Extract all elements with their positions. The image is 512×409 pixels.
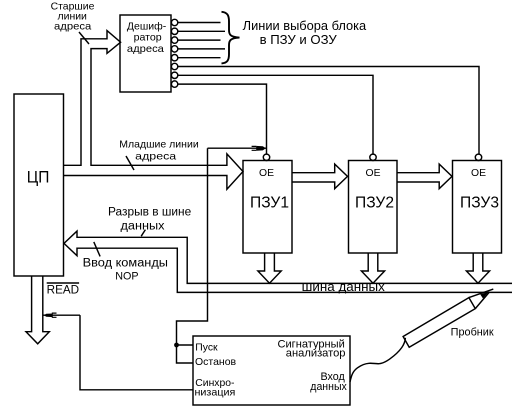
probe body (Пробник pencil) xyxy=(403,289,493,347)
down arrow ROM2 to data bus xyxy=(361,253,384,283)
label: Линии выбора блока в ПЗУ и ОЗУ xyxy=(243,19,367,47)
READ strobe arrow from CPU xyxy=(26,276,49,344)
address decoder U2 (Дешифратор адреса) xyxy=(120,15,171,92)
svg-text:READ: READ xyxy=(47,285,79,297)
wire: select tap down to analyzer start/stop xyxy=(177,148,208,345)
svg-text:ПЗУ3: ПЗУ3 xyxy=(460,195,499,212)
leader line for Старшие label xyxy=(79,32,89,44)
decoder output pin circles (active-low bubbles) xyxy=(171,19,177,87)
leader line for Младшие label xyxy=(126,156,134,170)
svg-text:в ПЗУ и ОЗУ: в ПЗУ и ОЗУ xyxy=(260,33,337,47)
svg-text:NOP: NOP xyxy=(115,271,138,283)
svg-text:Пробник: Пробник xyxy=(451,327,494,339)
address bus arrows from CPU (Старшие/Младшие линии адреса) xyxy=(64,31,244,190)
wire: decoder output 7 to ROM2 OE xyxy=(178,75,373,154)
svg-text:Младшие линии: Младшие линии xyxy=(119,138,199,150)
ROM1 OE bubble xyxy=(263,154,269,160)
svg-text:OE: OE xyxy=(366,168,381,179)
bus arrow ROM1 to ROM2 xyxy=(292,164,348,189)
junction dot xyxy=(174,343,179,348)
data bus with break arrow into CPU (Разрыв в шине данных) xyxy=(64,231,512,292)
down arrow ROM1 to data bus xyxy=(258,253,281,283)
svg-text:адреса: адреса xyxy=(127,43,164,55)
ROM3 block (ПЗУ3) xyxy=(453,161,502,254)
svg-text:низация: низация xyxy=(195,387,236,399)
decoder output wires 1-5 (block select lines) xyxy=(178,23,225,58)
svg-text:Линии выбора блока: Линии выбора блока xyxy=(243,19,367,33)
ROM2 block (ПЗУ2) xyxy=(349,161,398,254)
probe cable from analyzer to probe xyxy=(350,338,405,382)
wire: decoder output 8 to ROM1 OE xyxy=(178,84,267,154)
svg-text:адреса: адреса xyxy=(135,150,176,162)
svg-text:OE: OE xyxy=(259,168,274,179)
probe tap on READ line (arrow marker) xyxy=(43,313,80,317)
leader line for Разрыв label xyxy=(141,230,145,237)
svg-text:ПЗУ1: ПЗУ1 xyxy=(250,195,289,212)
svg-text:ратор: ратор xyxy=(134,32,162,44)
ROM3 OE bubble xyxy=(475,154,481,160)
svg-text:шина данных: шина данных xyxy=(302,280,386,294)
svg-text:адреса: адреса xyxy=(54,20,91,32)
label: Ввод команды NOP xyxy=(83,258,168,283)
svg-text:ЦП: ЦП xyxy=(27,169,50,187)
down arrow ROM3 to data bus xyxy=(466,253,489,283)
label: Разрыв в шине данных xyxy=(108,207,191,233)
wire: decoder output 6 to ROM3 OE xyxy=(178,67,479,155)
CPU block U1 (ЦП) xyxy=(14,94,64,276)
svg-text:данных: данных xyxy=(121,221,165,233)
ROM2 OE bubble xyxy=(370,154,376,160)
label: Старшие линии адреса xyxy=(51,0,95,32)
svg-text:Дешиф-: Дешиф- xyxy=(127,20,167,32)
svg-text:Пуск: Пуск xyxy=(195,342,218,354)
label: Младшие линии адреса xyxy=(119,138,199,162)
leader line for Ввод label xyxy=(94,242,100,257)
probe tap on ROM1 select line (arrow marker) xyxy=(208,146,267,151)
svg-text:Ввод команды: Ввод команды xyxy=(83,258,168,270)
svg-text:ПЗУ2: ПЗУ2 xyxy=(355,195,394,212)
bus arrow ROM2 to ROM3 xyxy=(397,164,452,189)
wire: junction to stop input xyxy=(177,345,194,363)
svg-text:OE: OE xyxy=(471,168,486,179)
brace grouping select lines xyxy=(222,12,240,64)
svg-text:данных: данных xyxy=(310,381,347,393)
svg-text:Останов: Останов xyxy=(195,356,237,368)
signature analyzer block (Сигнатурный анализатор) xyxy=(193,336,350,405)
svg-text:анализатор: анализатор xyxy=(286,348,346,360)
ROM1 block (ПЗУ1) xyxy=(243,161,292,254)
wire: READ tap to analyzer sync input xyxy=(80,315,193,390)
svg-text:Разрыв в шине: Разрыв в шине xyxy=(108,207,191,219)
